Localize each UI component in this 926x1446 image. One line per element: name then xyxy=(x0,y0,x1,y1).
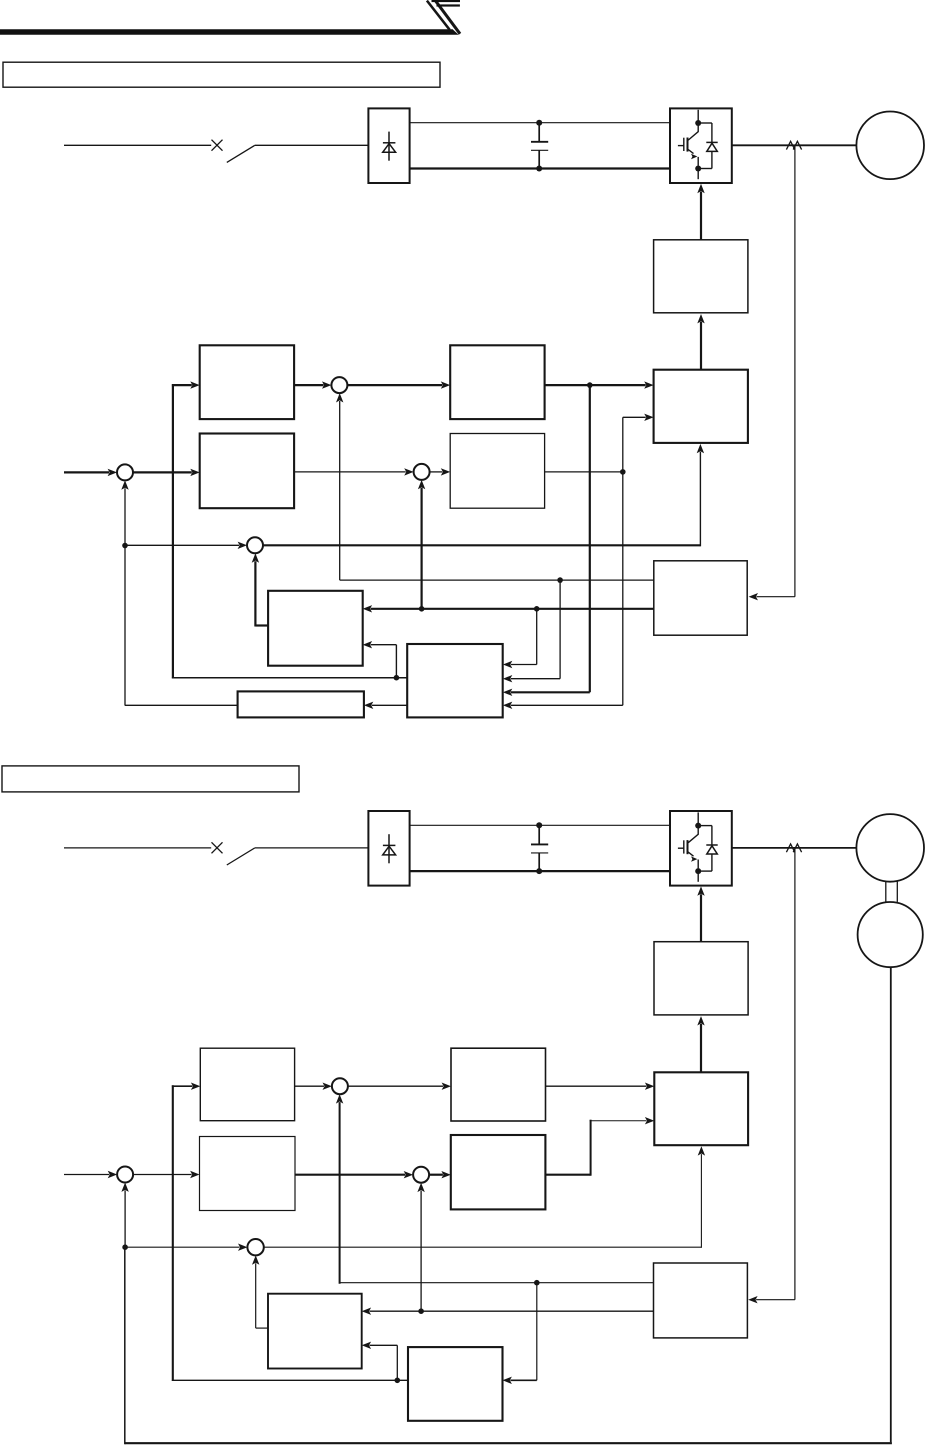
junction adapt-out riser d1 xyxy=(394,675,400,681)
junction detector-B S2riser d1 xyxy=(419,606,425,612)
wire filter-out d1 xyxy=(125,704,238,706)
header zigzag second bar xyxy=(437,4,460,6)
motor shaft link right d2 xyxy=(896,882,898,902)
wire detector-B branch drop d1 xyxy=(536,609,538,665)
wire detector-A into adapt d2 xyxy=(510,1379,536,1381)
capacitor C1 plate upper xyxy=(531,141,548,143)
wire excitation-into-compute d2 xyxy=(590,1120,647,1122)
rectifier diode D2a bar xyxy=(383,844,396,846)
IGBT Q1 collector lead xyxy=(688,125,698,140)
current sensor CT1 mark B xyxy=(793,141,801,149)
wire estimator-to-S3 d2 xyxy=(255,1263,257,1328)
wire DC bus N d2 xyxy=(410,870,670,872)
wire compute-to-gate arrow d2 xyxy=(700,1024,702,1072)
wire detector-out-A d1 xyxy=(340,579,654,581)
junction feedback branch d2 xyxy=(122,1244,128,1250)
chapter header rule xyxy=(0,29,459,35)
inverter U1 box xyxy=(670,108,732,183)
wire torquecurrent-to-compute d2 xyxy=(546,1085,647,1087)
header zigzag top bar xyxy=(432,0,461,2)
capacitor C1 top stub xyxy=(538,123,540,142)
junction detector-A branch d2 xyxy=(534,1280,540,1286)
summing node S2-1 xyxy=(414,464,430,480)
capacitor C2 bottom junction xyxy=(536,868,542,874)
capacitor C1 bottom junction xyxy=(536,166,542,172)
block speed-control d2 xyxy=(200,1137,296,1211)
capacitor C2 top junction xyxy=(536,822,542,828)
wire encoder riser d2 xyxy=(124,1247,126,1444)
wire detector-A riser to S1 d2 xyxy=(339,1102,341,1284)
breaker MCCB2 X-mark xyxy=(212,842,223,853)
freewheel diode D1f cathode lead xyxy=(711,123,713,142)
wire S2-to-excitation d2 xyxy=(429,1174,443,1176)
summing node S3-1 xyxy=(247,537,263,553)
capacitor C1 top junction xyxy=(536,120,542,126)
capacitor C2 plate lower xyxy=(531,852,548,854)
wire torquecurrent-to-compute d1 xyxy=(545,384,646,386)
inverter U2 box xyxy=(670,811,732,886)
capacitor C1 bottom stub xyxy=(538,150,540,168)
wire excitation riser d2 xyxy=(590,1120,592,1176)
rectifier diode D2a triangle xyxy=(383,846,396,855)
wire S3 riser d2 xyxy=(700,1154,702,1248)
wire DC bus P d1 xyxy=(410,122,670,124)
block torque-current d1 xyxy=(450,345,544,419)
block torque-control d1 xyxy=(200,345,294,419)
IGBT Q2 main bar xyxy=(687,840,689,854)
summing node S3-2 xyxy=(247,1239,263,1255)
rectifier diode D2a lead xyxy=(388,834,390,863)
wire current-feedback into detector d1 xyxy=(757,596,795,598)
freewheel diode D1f top link xyxy=(698,122,712,124)
block output-computation d1 xyxy=(654,370,748,443)
wire breaker-to-rectifier d2 xyxy=(255,847,369,849)
IGBT Q2 gate lead xyxy=(678,847,684,849)
IGBT Q2 emitter arrow xyxy=(688,852,693,856)
block slip-estimator d1 xyxy=(268,591,363,666)
wire speedcontrol-to-S2 d1 xyxy=(294,471,406,473)
wire adapt-into-estimator d2 xyxy=(370,1344,398,1346)
wire estimator-to-S3 d1 xyxy=(254,561,256,626)
freewheel diode D1f anode lead xyxy=(711,151,713,168)
freewheel diode D2f cathode lead xyxy=(711,826,713,845)
wire excitation-out d2 xyxy=(545,1174,590,1176)
junction adapt-out riser d2 xyxy=(395,1378,401,1384)
junction detector-B branch d1 xyxy=(534,606,540,612)
freewheel diode D1f bottom link xyxy=(698,168,712,170)
block gate-drive d1 xyxy=(654,240,748,313)
capacitor C2 bottom stub xyxy=(538,853,540,871)
summing node S0-2 xyxy=(117,1167,133,1183)
IGBT Q1 emitter lead xyxy=(697,157,699,166)
summing node S1-1 xyxy=(331,377,347,393)
wire estimator-out d1 xyxy=(255,624,268,626)
junction excitation branch d1 xyxy=(620,469,626,475)
block adaptation d1 xyxy=(407,644,503,717)
block speed-filter d1 xyxy=(238,691,364,717)
wire S0-to-speedcontrol d2 xyxy=(133,1174,192,1176)
block voltage-current-detection d1 xyxy=(654,561,747,635)
freewheel diode D1f triangle xyxy=(707,143,718,151)
section title box 2 xyxy=(2,766,299,792)
inverter U1 bottom node xyxy=(695,166,701,172)
summing node S2-2 xyxy=(413,1167,429,1183)
wire feedback-to-S0 d2 xyxy=(124,1190,126,1244)
wire feedback-to-S3 d1 xyxy=(125,544,239,546)
wire adapt left riser d1 xyxy=(172,384,174,678)
wire gate-to-inverter arrow d2 xyxy=(700,894,702,941)
wire excitation-into-compute d1 xyxy=(623,416,646,418)
wire excitation-into-adapt d1 xyxy=(511,704,623,706)
IGBT Q1 emitter arrow xyxy=(688,150,693,154)
IGBT Q1 gate lead xyxy=(678,145,684,147)
inverter U2 bottom node xyxy=(695,868,701,874)
block adaptation d2 xyxy=(408,1347,503,1421)
wire detector-A branch drop d2 xyxy=(536,1283,538,1381)
motor M2 xyxy=(856,814,924,882)
wire encoder bottom run d2 xyxy=(125,1442,891,1443)
wire detector-out-B d1 xyxy=(371,608,654,610)
block output-computation d2 xyxy=(654,1072,748,1145)
wire breaker-to-rectifier d1 xyxy=(255,144,369,146)
junction feedback branch d1 xyxy=(122,543,128,549)
inverter U1 bottom lead xyxy=(697,171,699,180)
summing node S1-2 xyxy=(332,1078,348,1094)
block voltage-current-detection d2 xyxy=(654,1263,748,1338)
junction torquecurrent branch d1 xyxy=(587,382,593,388)
freewheel diode D2f top link xyxy=(698,825,712,827)
block speed-control d1 xyxy=(200,434,294,509)
encoder PLG d2 xyxy=(858,902,923,967)
wire S3-out d1 xyxy=(263,544,700,546)
freewheel diode D1f bar xyxy=(706,141,717,143)
wire detector-out-B d2 xyxy=(370,1310,654,1312)
wire estimator-out d2 xyxy=(256,1327,268,1329)
wire S0-to-speedcontrol d1 xyxy=(133,471,192,473)
header zigzag outer diagonal xyxy=(434,0,460,34)
wire current-feedback into detector d2 xyxy=(756,1299,795,1301)
freewheel diode D2f bar xyxy=(706,844,717,846)
IGBT Q2 gate bar xyxy=(683,840,685,853)
wire S3-out d2 xyxy=(264,1246,702,1248)
rectifier diode D1a lead xyxy=(388,132,390,161)
IGBT Q2 emitter lead xyxy=(697,860,699,869)
junction detector-A branch d1 xyxy=(557,577,563,583)
breaker MCCB1 X-mark xyxy=(212,140,223,151)
rectifier REC1 box xyxy=(368,108,409,183)
wire excitation-out d1 xyxy=(545,471,623,473)
current sensor CT1 mark A xyxy=(786,141,794,149)
wire speed-command-in d1 xyxy=(64,471,109,473)
block slip-estimator d2 xyxy=(268,1294,362,1369)
inverter U1 top lead xyxy=(697,110,699,121)
wire torquecurrent branch drop d1 xyxy=(589,385,591,692)
wire DC bus P d2 xyxy=(410,824,670,826)
wire encoder drop d2 xyxy=(890,967,892,1442)
wire adapt-into-torquecontrol d1 xyxy=(172,384,192,386)
breaker MCCB1 blade xyxy=(227,145,255,162)
header zigzag inner diagonal xyxy=(427,1,450,30)
wire inverter-to-motor d1 xyxy=(732,144,857,146)
IGBT Q1 main bar xyxy=(687,138,689,152)
wire detector-B riser to S2 d1 xyxy=(421,488,423,609)
wire detector-B riser to S2 d2 xyxy=(420,1191,422,1312)
wire adapt-out-left d2 xyxy=(172,1379,408,1381)
freewheel diode D2f anode lead xyxy=(711,854,713,871)
wire speedcontrol-to-S2 d2 xyxy=(295,1174,405,1176)
wire DC bus N d1 xyxy=(410,167,670,169)
rectifier diode D1a triangle xyxy=(383,144,396,153)
junction detector-B S2riser d2 xyxy=(418,1308,424,1314)
block excitation-current d2 xyxy=(451,1135,546,1209)
wire filter riser d1 xyxy=(124,545,126,705)
wire adapt riser d1 xyxy=(395,645,397,678)
capacitor C1 plate lower xyxy=(531,149,548,151)
IGBT Q2 collector lead xyxy=(688,827,698,842)
current sensor CT2 mark B xyxy=(793,844,801,852)
wire detector-A riser to S1 d1 xyxy=(339,401,341,580)
wire S1-to-torquecurrent d1 xyxy=(347,384,442,386)
wire S3 riser d1 xyxy=(699,452,701,547)
capacitor C2 top stub xyxy=(538,825,540,844)
rectifier REC2 box xyxy=(368,811,409,886)
wire supply-in d1 xyxy=(64,144,211,146)
inverter U1 top node xyxy=(695,120,701,126)
inverter U2 top node xyxy=(695,823,701,829)
breaker MCCB2 blade xyxy=(227,848,255,865)
motor shaft link left d2 xyxy=(885,882,887,902)
wire feedback-to-S3 d2 xyxy=(125,1246,239,1248)
wire feedback-to-S0 d1 xyxy=(124,488,126,543)
wire current-feedback drop d1 xyxy=(794,146,796,596)
wire excitation drop d1 xyxy=(622,472,624,705)
block torque-current d2 xyxy=(451,1048,546,1121)
block torque-control d2 xyxy=(200,1048,294,1121)
wire compute-to-gate arrow d1 xyxy=(700,322,702,370)
wire excitation riser d1 xyxy=(622,417,624,472)
wire torque-to-S1 d2 xyxy=(295,1085,324,1087)
inverter U2 top lead xyxy=(697,812,699,823)
wire speed-command-in d2 xyxy=(64,1174,109,1176)
wire adapt-into-estimator d1 xyxy=(371,644,397,646)
wire S1-to-torquecurrent d2 xyxy=(348,1085,443,1087)
wire inverter-to-motor d2 xyxy=(732,847,857,849)
wire adapt left riser d2 xyxy=(172,1085,174,1381)
wire detector-out-A d2 xyxy=(340,1282,654,1284)
motor M1 xyxy=(856,112,924,180)
wire detector-A into adapt d1 xyxy=(511,678,560,680)
section title box 1 xyxy=(3,62,440,87)
wire branch-into-adapt d1 xyxy=(511,691,590,693)
IGBT Q1 gate bar xyxy=(683,138,685,151)
block excitation-current d1 xyxy=(450,434,544,509)
wire detector-B into adapt d1 xyxy=(511,664,537,666)
wire supply-in d2 xyxy=(64,847,211,849)
freewheel diode D2f bottom link xyxy=(698,870,712,872)
wire adapt-to-filter d1 xyxy=(372,704,407,706)
rectifier diode D1a bar xyxy=(383,142,396,144)
freewheel diode D2f triangle xyxy=(707,846,718,854)
summing node S0-1 xyxy=(117,464,133,480)
wire gate-to-inverter arrow d1 xyxy=(700,192,702,240)
current sensor CT2 mark A xyxy=(786,844,794,852)
wire detector-A branch drop d1 xyxy=(559,580,561,679)
wire current-feedback drop d2 xyxy=(794,849,796,1300)
wire adapt-out-left d1 xyxy=(172,677,407,679)
wire S2-to-excitation d1 xyxy=(430,471,443,473)
block gate-drive d2 xyxy=(654,942,748,1015)
wire adapt-into-torquecontrol d2 xyxy=(172,1085,193,1087)
wire torque-to-S1 d1 xyxy=(294,384,323,386)
wire adapt riser d2 xyxy=(396,1345,398,1380)
capacitor C2 plate upper xyxy=(531,843,548,845)
inverter U2 bottom lead xyxy=(697,873,699,882)
